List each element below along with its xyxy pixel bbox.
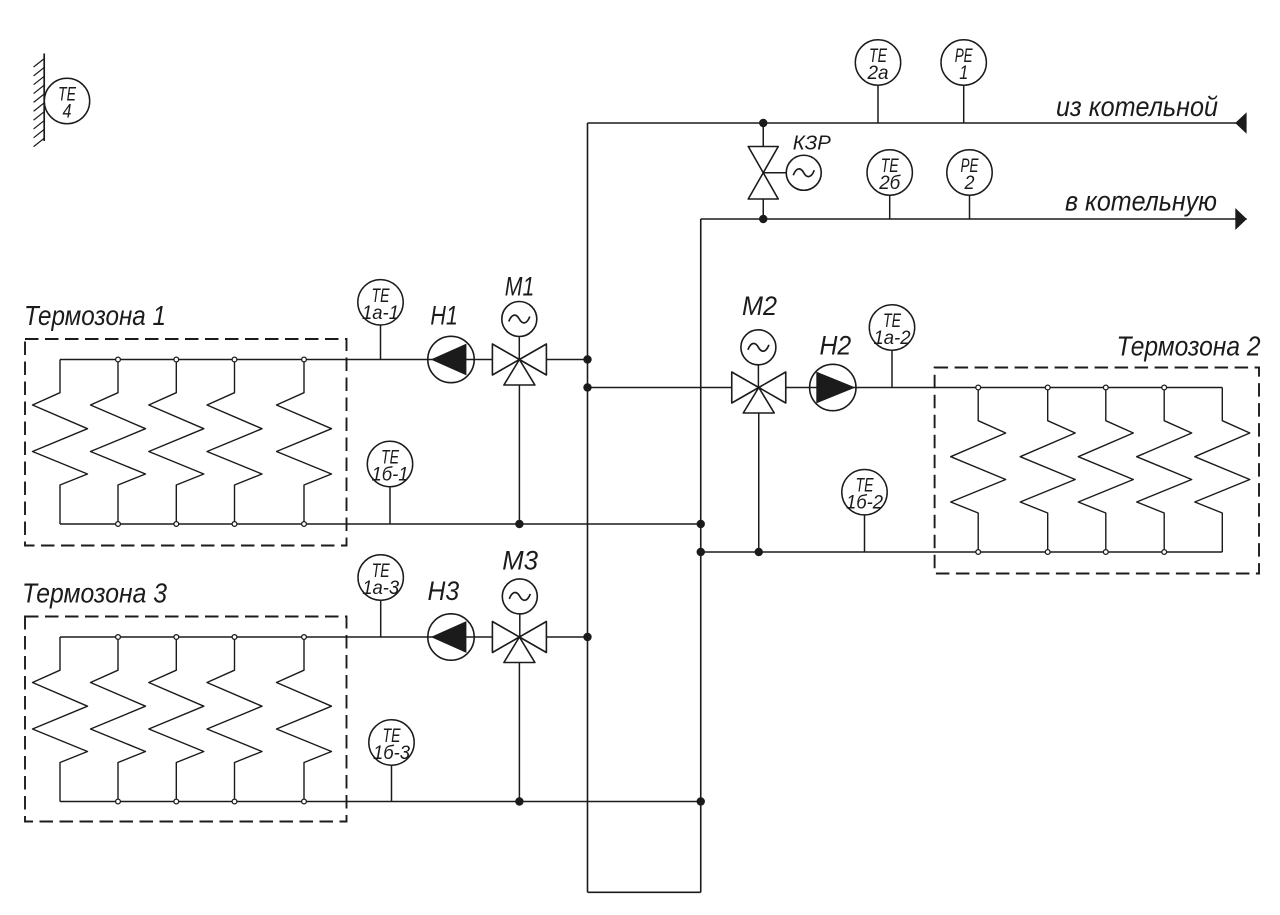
- М2 actuator: [741, 330, 776, 365]
- М1 actuator stem: [518, 319, 520, 360]
- sensor TE 1б-1 stem: [389, 464, 391, 524]
- sensor TE 1a-3: [358, 555, 403, 600]
- wire: supply main (из котельной): [588, 122, 1247, 124]
- Термозона 2 dashed boundary: [935, 368, 1259, 574]
- sensor TE 2б: [867, 150, 912, 195]
- svg-text:Н2: Н2: [820, 331, 852, 361]
- sensor TE 1б-2: [842, 470, 887, 515]
- wire: M2 to zone2 return: [758, 413, 760, 552]
- svg-text:из котельной: из котельной: [1056, 91, 1218, 122]
- junction: [583, 355, 591, 363]
- wire: zone1 return: [60, 523, 701, 525]
- svg-text:Н1: Н1: [430, 301, 458, 331]
- junction: [583, 383, 591, 391]
- wire: zone3 supply: [60, 636, 493, 638]
- wire: zone1 supply: [60, 359, 493, 361]
- wall mounting symbol: [43, 54, 45, 142]
- junction: [697, 797, 705, 805]
- junction: [755, 548, 763, 556]
- wire: return riser V2: [700, 219, 702, 892]
- heating loop 3-2: [91, 637, 146, 802]
- svg-text:2: 2: [964, 173, 975, 194]
- sensor PE 1 stem: [963, 63, 965, 124]
- heating loop 3-3: [149, 637, 204, 802]
- wire: M3 to riser: [546, 636, 587, 638]
- svg-text:1: 1: [959, 63, 968, 84]
- pump Н1: [428, 336, 474, 382]
- sensor TE 1a-2: [869, 305, 914, 350]
- pump Н3: [428, 614, 474, 660]
- svg-text:1а-1: 1а-1: [362, 303, 399, 324]
- sensor TE4 (outdoor temperature): [44, 78, 89, 123]
- svg-text:Н3: Н3: [428, 576, 460, 606]
- svg-text:М2: М2: [742, 291, 777, 321]
- heating loop 1-2: [91, 360, 146, 525]
- sensor TE 2a: [855, 40, 900, 85]
- svg-text:Термозона 2: Термозона 2: [1117, 330, 1261, 361]
- svg-text:М1: М1: [505, 272, 535, 302]
- М2 actuator stem: [757, 347, 759, 387]
- svg-text:Термозона 1: Термозона 1: [24, 300, 166, 331]
- wire: M1 to riser: [546, 359, 587, 361]
- junction: [583, 633, 591, 641]
- svg-text:М3: М3: [502, 546, 538, 576]
- Термозона 1 dashed boundary: [25, 339, 347, 546]
- wire: M1 to zone1 return: [518, 385, 520, 524]
- wire: zone2 supply: [786, 387, 1223, 389]
- wire: return main (в котельную): [701, 218, 1247, 220]
- sensor TE 2a stem: [877, 63, 879, 124]
- junction: [515, 797, 523, 805]
- svg-text:1б-2: 1б-2: [846, 493, 883, 514]
- sensor TE 1a-1: [358, 280, 403, 325]
- junction: [697, 548, 705, 556]
- svg-text:в котельную: в котельную: [1065, 186, 1217, 217]
- heating loop 2-2: [1020, 388, 1075, 553]
- heating loop 1-3: [149, 360, 204, 525]
- КЗР actuator: [786, 155, 821, 190]
- valve КЗР (2-way shutoff): [762, 123, 764, 147]
- wire: zone3 return: [60, 801, 701, 803]
- heating loop 3-1: [33, 637, 88, 802]
- wire: zone2 return: [701, 551, 1223, 553]
- sensor TE 1a-1 stem: [380, 302, 382, 359]
- svg-text:1б-1: 1б-1: [372, 465, 409, 486]
- heating loop 1-4: [207, 360, 262, 525]
- heating loop 3-5: [277, 637, 332, 802]
- svg-text:КЗР: КЗР: [793, 133, 832, 155]
- heating loop 2-3: [1078, 388, 1133, 553]
- heating loop 1-5: [277, 360, 332, 525]
- М3 actuator stem: [519, 596, 521, 637]
- wire: bottom bypass: [588, 891, 701, 893]
- sensor TE 1a-2 stem: [891, 328, 893, 388]
- svg-text:4: 4: [63, 102, 72, 123]
- wire: M3 to zone3 return: [518, 663, 520, 802]
- wire: supply riser V1: [587, 123, 589, 892]
- heating loop 2-1: [951, 388, 1006, 553]
- heating loop 1-1: [33, 360, 88, 525]
- junction: [759, 119, 767, 127]
- junction: [759, 215, 767, 223]
- sensor TE 1б-3: [369, 720, 414, 765]
- sensor TE 1a-3 stem: [380, 578, 382, 638]
- svg-text:1а-3: 1а-3: [362, 578, 399, 599]
- junction: [515, 520, 523, 528]
- svg-text:Термозона 3: Термозона 3: [22, 578, 167, 609]
- sensor TE 1б-2 stem: [864, 492, 866, 552]
- Термозона 3 dashed boundary: [25, 617, 347, 822]
- heating loop 2-5: [1195, 388, 1250, 553]
- wire: riser to M2: [588, 387, 732, 389]
- М1 actuator: [502, 302, 537, 337]
- heating loop 2-4: [1137, 388, 1192, 553]
- junction: [697, 520, 705, 528]
- pump Н2: [810, 364, 856, 410]
- svg-text:1а-2: 1а-2: [874, 328, 911, 349]
- svg-text:2б: 2б: [878, 173, 901, 194]
- sensor TE 1б-3 stem: [391, 743, 393, 802]
- svg-text:2а: 2а: [867, 63, 889, 84]
- svg-text:1б-3: 1б-3: [373, 743, 410, 764]
- М3 actuator: [502, 579, 537, 614]
- heating loop 3-4: [207, 637, 262, 802]
- sensor PE 2 stem: [969, 173, 971, 220]
- sensor PE 1: [941, 40, 986, 85]
- sensor TE 1б-1: [367, 441, 412, 486]
- sensor TE 2б stem: [889, 173, 891, 220]
- sensor PE 2: [947, 150, 992, 195]
